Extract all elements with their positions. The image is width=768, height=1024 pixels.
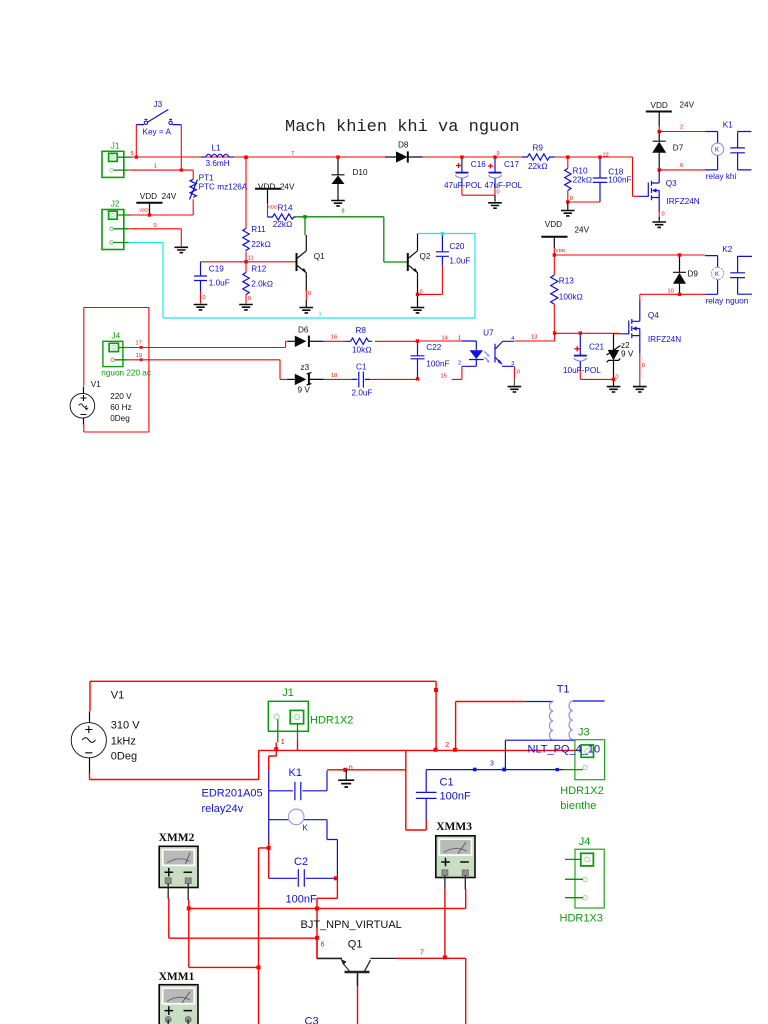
wire PT1 bottom: [192, 199, 194, 215]
svg-text:0Deg: 0Deg: [111, 751, 137, 763]
wire XMM3 plus to node7: [443, 889, 447, 959]
svg-text:VDD: VDD: [545, 220, 562, 229]
ground C17: [488, 203, 502, 208]
svg-text:47uF-POL: 47uF-POL: [484, 181, 522, 190]
svg-text:Mach khien khi va nguon: Mach khien khi va nguon: [285, 118, 520, 137]
ground Q2: [411, 308, 425, 313]
svg-text:C21: C21: [589, 343, 604, 352]
svg-text:R9: R9: [533, 144, 544, 153]
ground Q1: [300, 308, 314, 313]
svg-text:22kΩ: 22kΩ: [528, 162, 548, 171]
svg-text:C2: C2: [294, 856, 308, 868]
capacitor C16: [455, 155, 495, 195]
svg-text:IRFZ24N: IRFZ24N: [667, 197, 700, 206]
ground z2: [607, 387, 621, 392]
svg-text:7: 7: [291, 151, 294, 157]
svg-text:24V: 24V: [680, 101, 695, 110]
svg-text:0: 0: [154, 223, 157, 229]
svg-text:K1: K1: [289, 767, 302, 779]
wire cyan net 1: [129, 234, 475, 319]
wire J2 pin1 to PT1: [129, 214, 193, 216]
ground C19: [194, 305, 208, 310]
wire main rail net 7: [131, 157, 639, 196]
svg-text:VDD: VDD: [139, 208, 149, 213]
junction rail-C18: [598, 155, 601, 158]
multimeter XMM1: [159, 985, 198, 1024]
svg-text:R14: R14: [278, 203, 293, 212]
wire J3 right leg: [180, 125, 183, 172]
ground R10: [561, 211, 575, 216]
svg-text:2.0uF: 2.0uF: [352, 389, 373, 398]
svg-text:7: 7: [420, 950, 424, 957]
svg-text:0: 0: [662, 212, 665, 218]
svg-text:0: 0: [349, 765, 353, 772]
svg-text:XMM1: XMM1: [159, 971, 195, 983]
source V1 (310V): [71, 712, 106, 773]
svg-text:K: K: [715, 272, 719, 278]
connector J4 HDR1X3: [565, 849, 604, 908]
wire node 11: [201, 252, 297, 264]
svg-text:C3: C3: [305, 1016, 319, 1024]
svg-text:6: 6: [321, 942, 325, 949]
svg-text:K1: K1: [723, 121, 733, 130]
resistor R12: [243, 264, 249, 304]
power VDD R13: [541, 237, 567, 255]
svg-text:XMM2: XMM2: [159, 832, 195, 844]
capacitor C18: [593, 159, 607, 203]
svg-text:310 V: 310 V: [111, 720, 140, 732]
resistor R14: [268, 214, 297, 220]
svg-text:16: 16: [331, 334, 337, 340]
svg-text:V1: V1: [111, 690, 124, 702]
wire node 6: [658, 168, 706, 171]
wire net 2 row: [276, 740, 581, 752]
svg-text:100nF: 100nF: [286, 894, 317, 906]
svg-text:22kΩ: 22kΩ: [273, 220, 293, 229]
svg-text:Q4: Q4: [648, 311, 659, 320]
resistor R13: [551, 255, 558, 333]
capacitor C1: [352, 372, 418, 388]
svg-text:3.6mH: 3.6mH: [206, 159, 230, 168]
source V1 (220V): [70, 387, 95, 425]
svg-text:1: 1: [319, 312, 322, 318]
svg-text:22kΩ: 22kΩ: [251, 240, 270, 249]
optocoupler U7: [418, 341, 515, 387]
svg-text:K2: K2: [722, 245, 732, 254]
svg-text:J1: J1: [282, 687, 294, 699]
ground J2: [175, 247, 189, 252]
svg-text:19: 19: [136, 353, 142, 359]
svg-text:100nF: 100nF: [608, 175, 631, 184]
svg-text:10kΩ: 10kΩ: [352, 345, 372, 354]
svg-text:2: 2: [445, 742, 449, 749]
svg-text:VDD 24V: VDD 24V: [258, 183, 295, 192]
wire XMM2 branch left: [189, 848, 269, 1024]
svg-text:1kHz: 1kHz: [111, 736, 136, 748]
inductor L1: [201, 154, 234, 157]
wire V1-J4 loop box: [84, 308, 149, 433]
relay K2 coil: [705, 256, 724, 295]
svg-text:10uF-POL: 10uF-POL: [563, 366, 601, 375]
capacitor C17: [488, 155, 502, 201]
svg-text:D6: D6: [298, 326, 309, 335]
svg-text:2.0kΩ: 2.0kΩ: [251, 280, 273, 289]
svg-text:J2: J2: [111, 200, 120, 209]
transistor Q1: [297, 235, 307, 307]
svg-text:VDD: VDD: [556, 248, 566, 253]
transformer T1 primary lead: [456, 702, 554, 750]
svg-text:K: K: [303, 824, 309, 833]
svg-text:13: 13: [531, 335, 537, 341]
svg-text:1: 1: [281, 739, 285, 746]
svg-text:C1: C1: [440, 777, 454, 789]
svg-text:C20: C20: [449, 242, 464, 251]
svg-text:BJT_NPN_VIRTUAL: BJT_NPN_VIRTUAL: [301, 919, 402, 931]
svg-text:J1: J1: [111, 142, 120, 151]
wire V1 top loop: [90, 681, 438, 750]
wire ground node bottom: [327, 751, 426, 830]
svg-text:J3: J3: [154, 100, 163, 109]
svg-text:10: 10: [668, 289, 674, 295]
svg-text:V1: V1: [91, 380, 101, 389]
svg-text:6: 6: [680, 163, 683, 169]
svg-text:100nF: 100nF: [440, 791, 471, 803]
power VDD R14: [255, 189, 281, 217]
svg-text:60 Hz: 60 Hz: [110, 403, 131, 412]
svg-text:9 V: 9 V: [298, 385, 311, 394]
svg-text:0: 0: [570, 196, 573, 202]
svg-text:3: 3: [490, 760, 494, 767]
transformer T1 primary winding: [549, 702, 553, 740]
svg-text:NLT_PQ_4_10: NLT_PQ_4_10: [528, 744, 601, 756]
svg-text:R12: R12: [251, 265, 266, 274]
connector J1: [102, 151, 131, 177]
wire Q2 emitter to C20: [416, 264, 443, 296]
svg-text:R8: R8: [356, 326, 367, 335]
ground R12: [239, 305, 253, 310]
svg-text:J3: J3: [578, 727, 590, 739]
power VDD J2: [136, 203, 162, 217]
svg-text:11: 11: [248, 256, 254, 262]
relay K1 contact: [730, 132, 751, 170]
svg-text:R13: R13: [559, 276, 574, 285]
svg-text:4: 4: [511, 336, 514, 342]
wire R11 top: [245, 159, 247, 229]
connector J1 HDR1X2: [268, 701, 308, 742]
relay K1 coil (EDR201A05): [269, 771, 327, 801]
svg-text:1.0uF: 1.0uF: [449, 257, 470, 266]
wire J2 pin2 to ground: [129, 229, 182, 247]
svg-text:17: 17: [136, 340, 142, 346]
svg-text:3: 3: [511, 361, 514, 367]
wire R10-C18 bottom to ground: [568, 202, 600, 210]
wire J3 left leg: [135, 125, 138, 159]
resistor R9: [522, 154, 555, 160]
svg-text:Q1: Q1: [348, 939, 363, 951]
svg-text:PTC mz126A: PTC mz126A: [199, 183, 248, 192]
power VDD Q3: [646, 112, 672, 132]
zener z3: [287, 373, 352, 386]
svg-text:24V: 24V: [575, 226, 590, 235]
wire node 2: [658, 130, 706, 133]
diode D8: [385, 151, 423, 162]
wire V1 bottom to K1 node: [90, 743, 279, 780]
ground Q3: [652, 222, 666, 227]
relay K indicator circle: [267, 791, 338, 879]
capacitor C22: [411, 339, 425, 380]
svg-text:220 V: 220 V: [110, 392, 132, 401]
ground Q4: [633, 387, 647, 392]
wire net 1: [129, 170, 193, 179]
wire net minus y908: [187, 889, 466, 911]
svg-text:K: K: [715, 148, 719, 154]
wire node 10: [640, 293, 705, 296]
svg-text:100kΩ: 100kΩ: [559, 293, 583, 302]
svg-text:VDD: VDD: [651, 101, 668, 110]
svg-text:5: 5: [131, 151, 134, 157]
svg-text:D7: D7: [673, 144, 684, 153]
svg-text:0: 0: [497, 190, 500, 196]
connector J3 bienthe: [564, 740, 605, 780]
svg-text:D9: D9: [688, 270, 699, 279]
svg-text:PT1: PT1: [199, 174, 214, 183]
svg-text:D10: D10: [353, 168, 368, 177]
capacitor C20: [436, 232, 449, 265]
resistor R11: [243, 228, 249, 251]
svg-text:HDR1X3: HDR1X3: [560, 912, 603, 924]
svg-text:HDR1X2: HDR1X2: [310, 715, 353, 727]
wire node 13: [514, 331, 619, 341]
svg-text:9 V: 9 V: [621, 350, 634, 359]
svg-text:12: 12: [603, 152, 609, 158]
svg-text:relay nguon: relay nguon: [706, 297, 749, 306]
ground D10: [331, 201, 345, 206]
zener z2: [607, 333, 621, 386]
capacitor C1 (100nF bottom): [416, 770, 437, 830]
capacitor C19: [194, 262, 207, 304]
svg-text:1.0uF: 1.0uF: [209, 279, 230, 288]
svg-text:L1: L1: [212, 144, 222, 153]
svg-text:J4: J4: [112, 331, 121, 340]
mosfet Q4: [614, 294, 640, 386]
svg-text:0: 0: [517, 369, 520, 375]
svg-text:8: 8: [342, 209, 345, 215]
wire T1 bottom common: [505, 740, 575, 769]
svg-text:EDR201A05: EDR201A05: [202, 788, 263, 800]
connector J2: [102, 210, 131, 250]
svg-text:1: 1: [458, 335, 461, 341]
svg-text:0: 0: [615, 375, 618, 381]
ground (bottom K1): [338, 770, 354, 787]
resistor R10: [565, 159, 571, 204]
wire net 3: [426, 768, 564, 772]
wire node 7: [396, 958, 466, 1024]
svg-text:22kΩ: 22kΩ: [573, 176, 593, 185]
svg-text:R10: R10: [573, 167, 588, 176]
svg-text:0Deg: 0Deg: [110, 414, 130, 423]
svg-text:C16: C16: [471, 160, 486, 169]
connector J4: [103, 341, 128, 366]
transistor Q1 (bottom BJT): [317, 958, 396, 1024]
svg-text:100nF: 100nF: [426, 359, 449, 368]
svg-text:C22: C22: [426, 343, 441, 352]
svg-text:0: 0: [642, 363, 645, 369]
svg-text:D8: D8: [398, 141, 409, 150]
svg-text:Q1: Q1: [314, 252, 325, 261]
transformer T1 secondary winding: [569, 701, 573, 739]
diode D6: [288, 336, 345, 347]
svg-text:18: 18: [331, 373, 337, 379]
svg-text:0: 0: [308, 291, 311, 297]
wire rail net vdd2: [553, 253, 705, 256]
diode D10: [332, 155, 345, 200]
svg-text:2: 2: [680, 125, 683, 131]
resistor R8: [345, 338, 418, 344]
wire green net 8: [296, 215, 407, 262]
junction rail-R10: [566, 155, 569, 158]
svg-text:2: 2: [458, 360, 461, 366]
capacitor C21: [574, 335, 614, 380]
capacitor C2: [269, 869, 338, 887]
junction rail-R11: [244, 156, 248, 160]
wire C2 to node6 chain: [315, 878, 337, 958]
svg-text:R11: R11: [251, 225, 266, 234]
svg-text:z3: z3: [301, 363, 310, 372]
svg-text:Key = A: Key = A: [143, 128, 172, 137]
svg-text:XMM3: XMM3: [436, 821, 472, 833]
thermistor PT1: [190, 179, 198, 199]
multimeter XMM3: [436, 836, 475, 889]
svg-text:relay24v: relay24v: [202, 803, 244, 815]
relay K2 contact: [730, 256, 752, 294]
diode D7: [652, 132, 666, 170]
switch J3: [136, 110, 181, 125]
svg-text:C1: C1: [356, 362, 367, 371]
wire net 19: [128, 358, 287, 379]
svg-text:J4: J4: [579, 836, 591, 848]
svg-text:U7: U7: [483, 329, 494, 338]
svg-text:HDR1X2: HDR1X2: [560, 785, 603, 797]
mosfet Q3: [639, 170, 660, 222]
svg-text:bienthe: bienthe: [560, 800, 596, 812]
svg-text:Q2: Q2: [420, 252, 431, 261]
relay K1 coil: [705, 132, 724, 170]
multimeter XMM2: [159, 846, 198, 900]
svg-text:1: 1: [154, 164, 157, 170]
wire net 6 row: [169, 898, 317, 958]
diode D9: [673, 253, 686, 294]
wire T1 secondary top: [573, 700, 605, 702]
svg-text:0: 0: [203, 295, 206, 301]
svg-text:0: 0: [248, 296, 251, 302]
svg-text:9: 9: [497, 151, 500, 157]
svg-text:C17: C17: [504, 160, 519, 169]
svg-text:47uF-POL: 47uF-POL: [444, 181, 482, 190]
svg-text:Q3: Q3: [666, 179, 677, 188]
wire net 17: [128, 341, 288, 349]
svg-text:C19: C19: [209, 265, 224, 274]
svg-text:IRFZ24N: IRFZ24N: [648, 335, 681, 344]
transistor Q2: [408, 234, 418, 307]
svg-text:relay khi: relay khi: [706, 172, 737, 181]
svg-text:T1: T1: [557, 683, 570, 695]
svg-text:nguon 220 ac: nguon 220 ac: [101, 369, 151, 378]
svg-text:15: 15: [441, 373, 447, 379]
svg-text:VDD 24V: VDD 24V: [140, 192, 177, 201]
ground U7: [508, 387, 522, 392]
